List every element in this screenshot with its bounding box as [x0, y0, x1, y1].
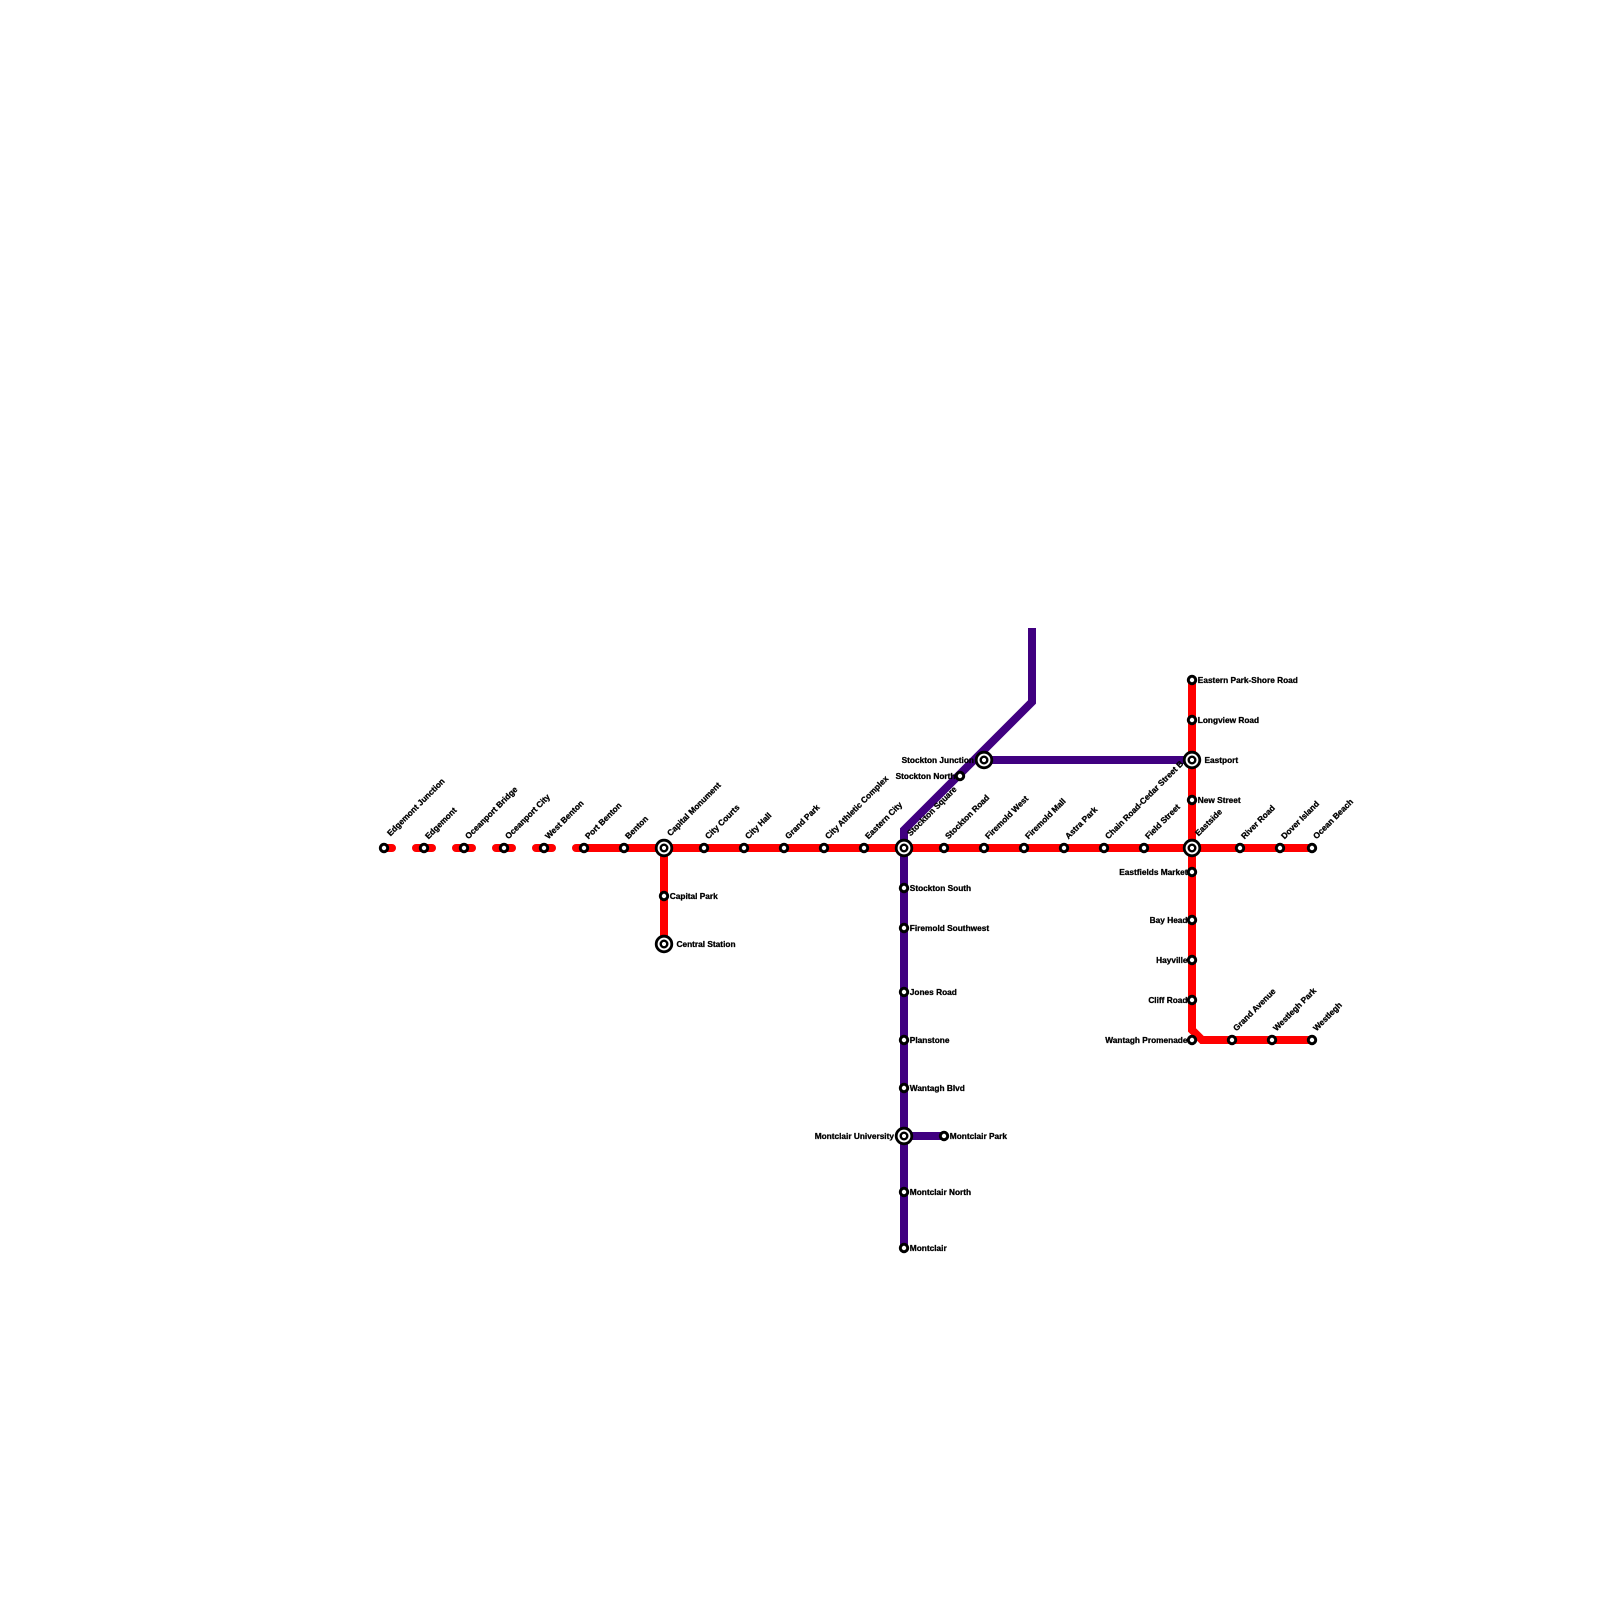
- svg-text:Eastern Park-Shore Road: Eastern Park-Shore Road: [1198, 675, 1298, 685]
- wire purple branch Stockton Junction to Eastport: [984, 756, 1192, 764]
- station Westlegh Park: [1268, 1036, 1275, 1043]
- station Port Benton: [580, 844, 587, 851]
- interchange station Capital Monument: [656, 840, 672, 856]
- wire red Line 1 dashed segment at Oceanport Bridge: [456, 844, 472, 852]
- svg-text:Wantagh Promenade: Wantagh Promenade: [1105, 1035, 1188, 1045]
- station Wantagh Promenade: [1188, 1036, 1195, 1043]
- station Firemold West: [980, 844, 987, 851]
- svg-text:Eastfields Market: Eastfields Market: [1119, 867, 1187, 877]
- station Edgemont Junction: [380, 844, 387, 851]
- wire red Line 2 Eastern Park-Shore Road to Westlegh: [1192, 680, 1312, 1040]
- svg-text:Hayville: Hayville: [1156, 955, 1188, 965]
- wire red Line 1 dashed segment at West Benton: [536, 844, 552, 852]
- station Bay Head: [1188, 916, 1195, 923]
- station Grand Park: [780, 844, 787, 851]
- wire red branch Capital Monument to Central Station: [660, 848, 668, 940]
- svg-text:Planstone: Planstone: [910, 1035, 950, 1045]
- station Cliff Road: [1188, 996, 1195, 1003]
- station Stockton Road: [940, 844, 947, 851]
- interchange station Eastside: [1184, 840, 1200, 856]
- svg-text:Longview Road: Longview Road: [1198, 715, 1259, 725]
- wire purple spur Montclair University to Montclair Park: [904, 1132, 944, 1140]
- svg-text:Wantagh Blvd: Wantagh Blvd: [910, 1083, 965, 1093]
- svg-text:Montclair North: Montclair North: [910, 1187, 971, 1197]
- station Grand Avenue: [1228, 1036, 1235, 1043]
- wire red Line 1 dashed segment at Oceanport City: [496, 844, 512, 852]
- interchange station Stockton Square: [896, 840, 912, 856]
- station Jones Road: [900, 988, 907, 995]
- station Firemold Mall: [1020, 844, 1027, 851]
- svg-text:Cliff Road: Cliff Road: [1148, 995, 1187, 1005]
- station Eastfields Market: [1188, 868, 1195, 875]
- svg-text:Bay Head: Bay Head: [1150, 915, 1188, 925]
- svg-text:Montclair: Montclair: [910, 1243, 948, 1253]
- station Longview Road: [1188, 716, 1195, 723]
- svg-text:Central Station: Central Station: [677, 939, 736, 949]
- svg-text:Capital Park: Capital Park: [670, 891, 718, 901]
- interchange station Central Station: [656, 936, 672, 952]
- station Eastern City: [860, 844, 867, 851]
- svg-text:Montclair University: Montclair University: [815, 1131, 895, 1141]
- station River Road: [1236, 844, 1243, 851]
- station New Street: [1188, 796, 1195, 803]
- station Firemold Southwest: [900, 924, 907, 931]
- station Chain Road-Cedar Street B: [1100, 844, 1107, 851]
- station Montclair North: [900, 1188, 907, 1195]
- wire red Line 1 dashed segment at Edgemont: [416, 844, 432, 852]
- station City Hall: [740, 844, 747, 851]
- svg-text:Stockton North: Stockton North: [896, 771, 956, 781]
- wire red Line 1 dashed segment at Edgemont Junction: [384, 844, 392, 852]
- station Oceanport Bridge: [460, 844, 467, 851]
- station Field Street: [1140, 844, 1147, 851]
- svg-text:New Street: New Street: [1198, 795, 1241, 805]
- svg-text:Firemold Southwest: Firemold Southwest: [910, 923, 990, 933]
- station Westlegh: [1308, 1036, 1315, 1043]
- station Hayville: [1188, 956, 1195, 963]
- station City Courts: [700, 844, 707, 851]
- station Astra Park: [1060, 844, 1067, 851]
- svg-text:Jones Road: Jones Road: [910, 987, 957, 997]
- station Oceanport City: [500, 844, 507, 851]
- station Stockton South: [900, 884, 907, 891]
- station Dover Island: [1276, 844, 1283, 851]
- station Edgemont: [420, 844, 427, 851]
- interchange station Stockton Junction: [976, 752, 992, 768]
- station Montclair: [900, 1244, 907, 1251]
- station Ocean Beach: [1308, 844, 1315, 851]
- svg-text:Montclair Park: Montclair Park: [950, 1131, 1008, 1141]
- station Montclair Park: [940, 1132, 947, 1139]
- station Benton: [620, 844, 627, 851]
- svg-text:Stockton South: Stockton South: [910, 883, 971, 893]
- wire purple Line 3 north terminus to Montclair: [904, 628, 1032, 1248]
- station Planstone: [900, 1036, 907, 1043]
- station Wantagh Blvd: [900, 1084, 907, 1091]
- station Capital Park: [660, 892, 667, 899]
- wire red Line 1 main trunk Port Benton to Ocean Beach: [576, 844, 1312, 852]
- svg-text:Eastport: Eastport: [1205, 755, 1239, 765]
- interchange station Montclair University: [896, 1128, 912, 1144]
- station Eastern Park-Shore Road: [1188, 676, 1195, 683]
- station Stockton North: [956, 772, 963, 779]
- svg-text:Stockton Junction: Stockton Junction: [902, 755, 974, 765]
- station West Benton: [540, 844, 547, 851]
- station City Athletic Complex: [820, 844, 827, 851]
- interchange station Eastport: [1184, 752, 1200, 768]
